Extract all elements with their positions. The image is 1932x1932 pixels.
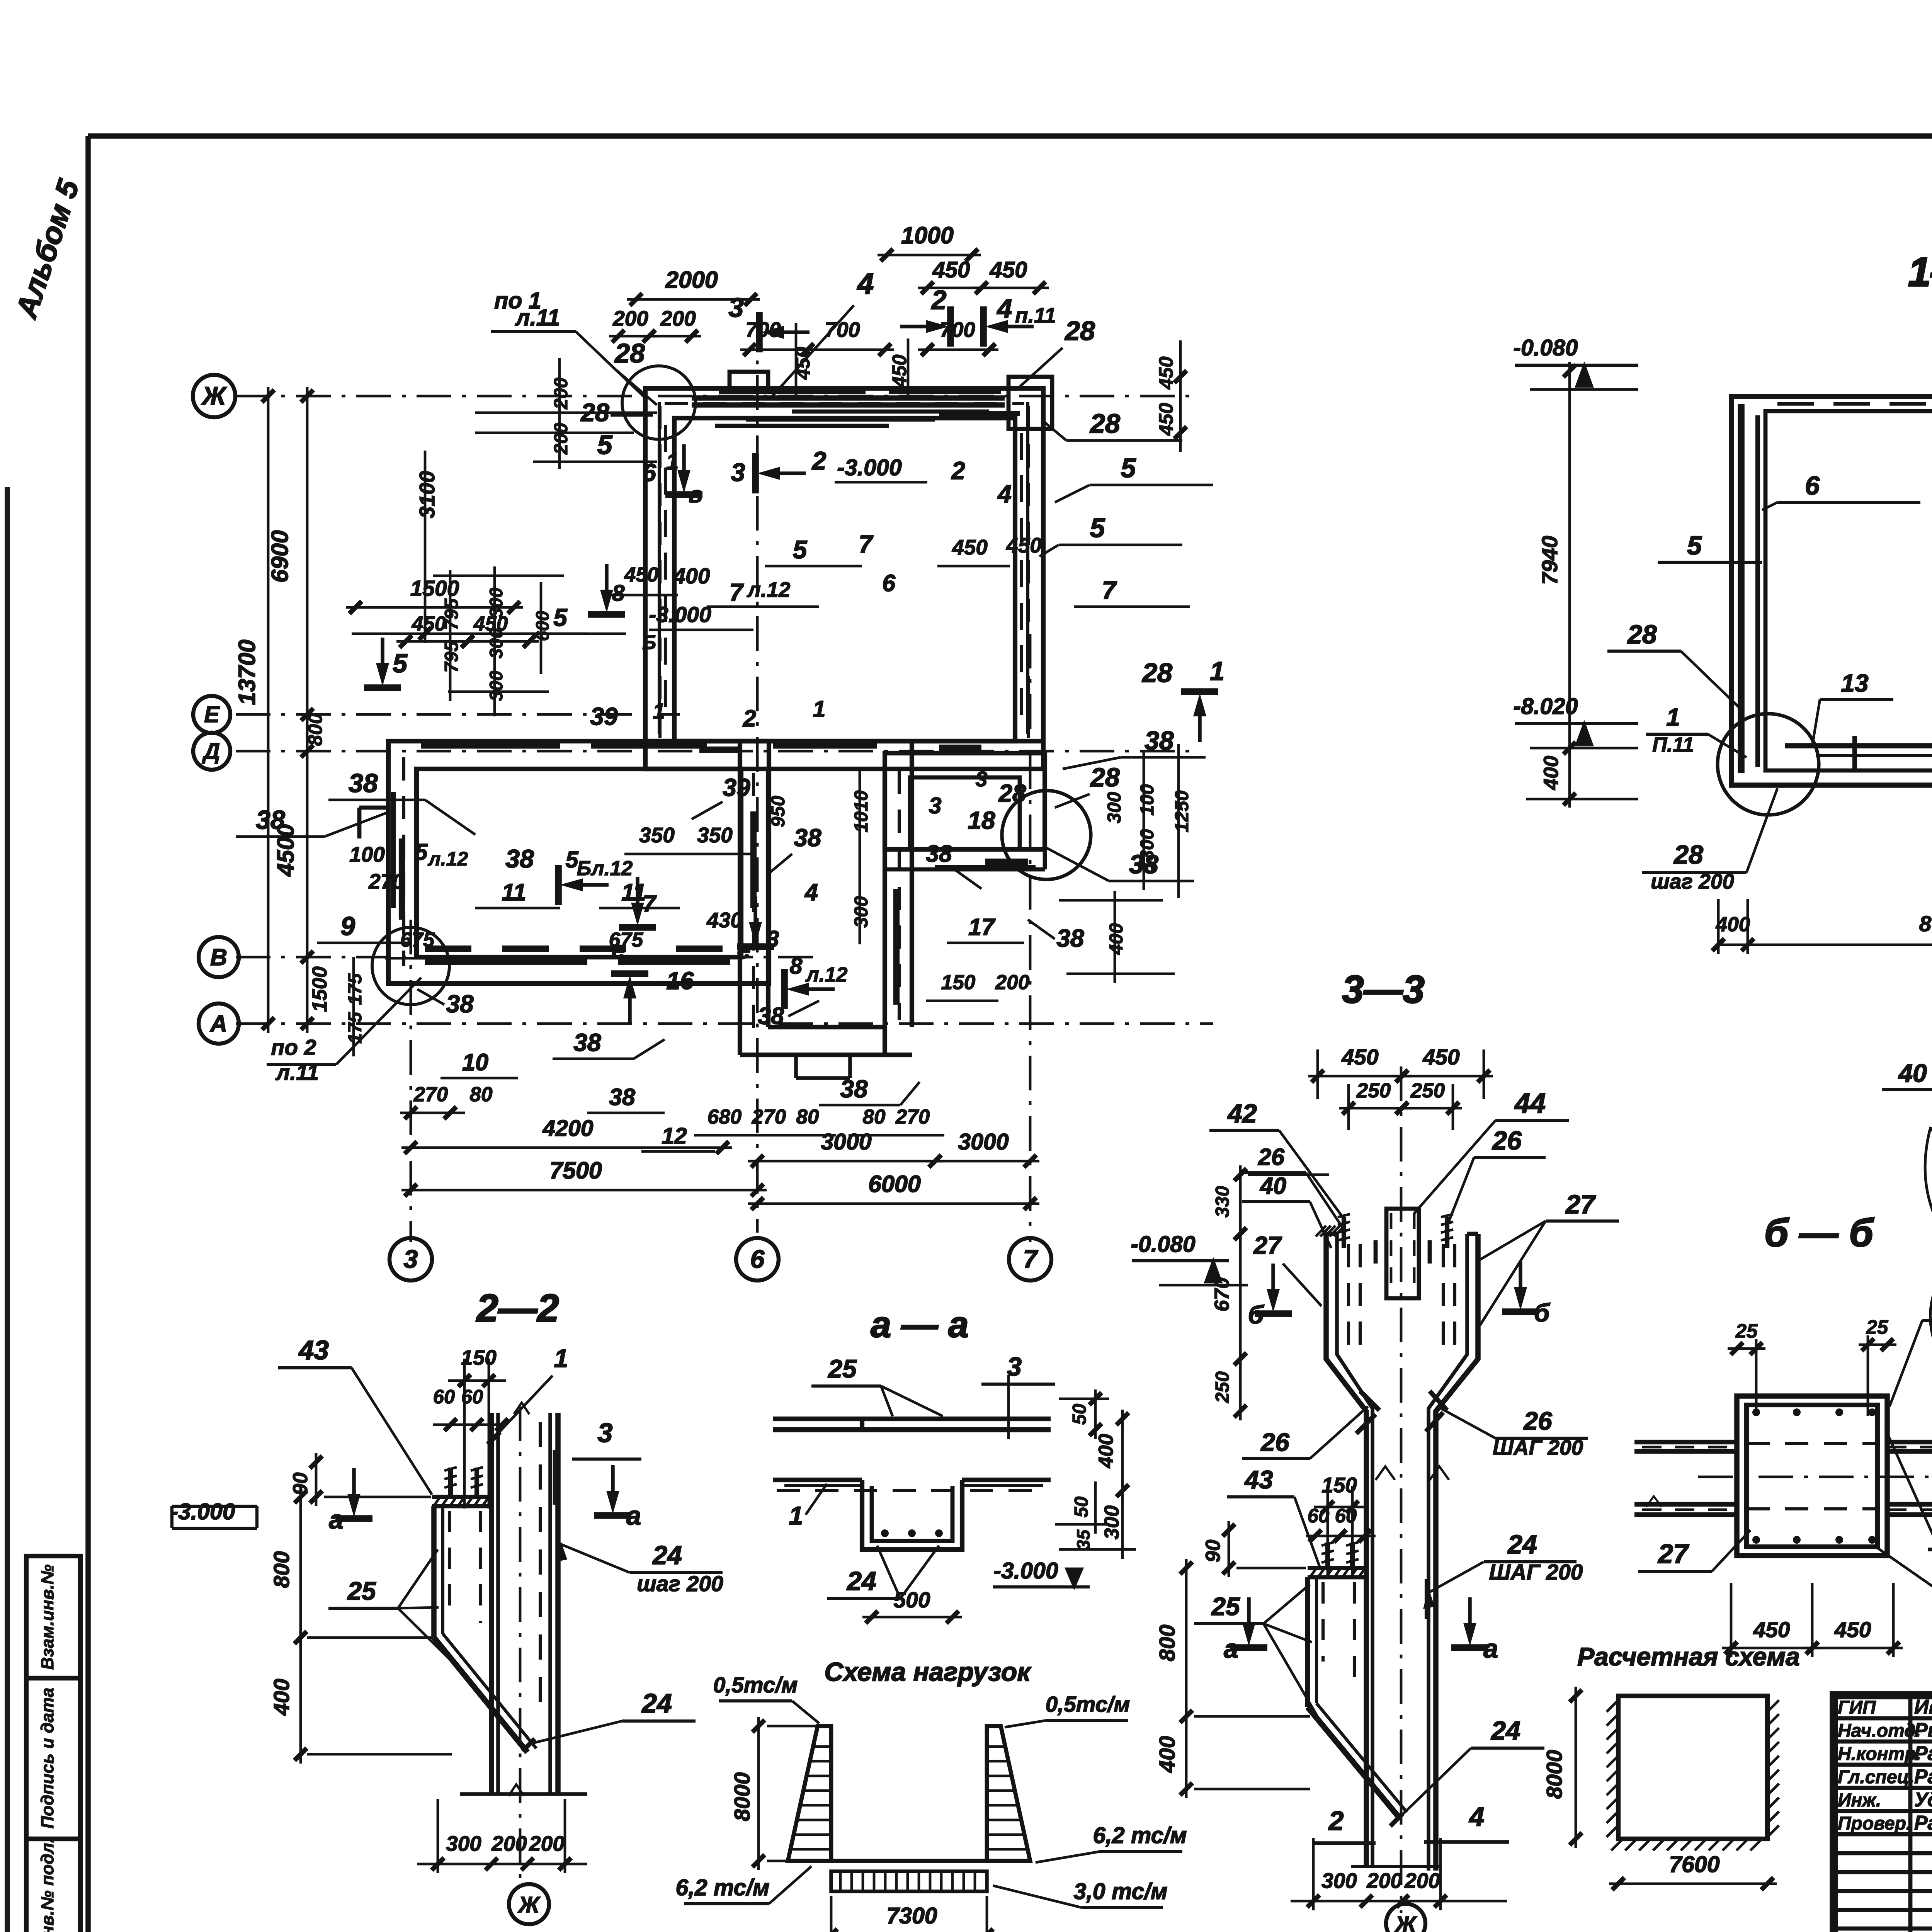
- svg-text:Рыбкина: Рыбкина: [1914, 1719, 1932, 1742]
- svg-text:300: 300: [851, 896, 872, 928]
- svg-text:5: 5: [415, 839, 428, 865]
- svg-text:5: 5: [793, 535, 808, 564]
- svg-text:44: 44: [1514, 1088, 1546, 1119]
- svg-text:50: 50: [1069, 1404, 1090, 1425]
- svg-text:80: 80: [796, 1105, 819, 1128]
- svg-text:Рашевский: Рашевский: [1914, 1812, 1932, 1834]
- svg-text:400: 400: [1540, 756, 1563, 790]
- svg-text:1: 1: [554, 1344, 568, 1372]
- svg-text:9: 9: [340, 912, 355, 941]
- svg-text:5: 5: [597, 430, 613, 460]
- svg-text:90: 90: [1202, 1540, 1225, 1563]
- svg-text:700: 700: [940, 318, 975, 342]
- svg-text:4: 4: [997, 480, 1012, 508]
- svg-text:39: 39: [723, 774, 750, 801]
- svg-text:6900: 6900: [267, 530, 293, 583]
- svg-text:200: 200: [1404, 1869, 1440, 1893]
- svg-text:38: 38: [446, 990, 474, 1018]
- svg-text:7500: 7500: [549, 1157, 602, 1184]
- svg-text:18: 18: [968, 806, 995, 834]
- svg-text:3: 3: [976, 767, 988, 791]
- svg-text:5: 5: [1687, 531, 1702, 560]
- svg-text:2: 2: [811, 446, 827, 475]
- svg-text:43: 43: [1244, 1465, 1273, 1494]
- svg-text:60: 60: [433, 1386, 455, 1408]
- svg-text:6,2 тс/м: 6,2 тс/м: [676, 1875, 770, 1900]
- svg-text:43: 43: [298, 1335, 329, 1365]
- svg-text:38: 38: [573, 1029, 601, 1056]
- svg-text:27: 27: [1253, 1231, 1282, 1259]
- svg-text:0,5тс/м: 0,5тс/м: [1046, 1692, 1130, 1717]
- svg-text:7600: 7600: [1669, 1852, 1719, 1877]
- svg-text:450: 450: [1006, 533, 1042, 557]
- svg-text:1: 1: [1210, 656, 1225, 686]
- svg-text:2: 2: [1328, 1806, 1344, 1836]
- svg-text:Рашевский: Рашевский: [1914, 1765, 1932, 1788]
- svg-text:6: 6: [750, 1245, 765, 1273]
- svg-text:Бл.12: Бл.12: [577, 857, 633, 880]
- svg-text:Иванова: Иванова: [1914, 1696, 1932, 1718]
- svg-text:700: 700: [825, 318, 860, 342]
- svg-text:200: 200: [1366, 1869, 1402, 1893]
- svg-text:-0.080: -0.080: [1513, 335, 1578, 361]
- svg-text:800: 800: [304, 713, 326, 746]
- svg-text:28: 28: [1090, 763, 1120, 792]
- svg-text:500: 500: [893, 1588, 930, 1612]
- svg-text:10: 10: [462, 1049, 488, 1075]
- svg-text:Нач.отд.: Нач.отд.: [1838, 1721, 1921, 1741]
- svg-text:6,2 тс/м: 6,2 тс/м: [1093, 1823, 1187, 1848]
- svg-text:л.11: л.11: [515, 305, 560, 330]
- svg-text:ГИП: ГИП: [1838, 1697, 1876, 1718]
- svg-text:12: 12: [662, 1123, 687, 1149]
- svg-text:А: А: [209, 1010, 227, 1037]
- svg-text:5: 5: [393, 649, 408, 678]
- svg-text:7: 7: [643, 891, 657, 917]
- svg-text:38: 38: [609, 1084, 635, 1110]
- svg-text:Взам.инв.№: Взам.инв.№: [37, 1565, 57, 1670]
- svg-text:200: 200: [491, 1832, 527, 1855]
- svg-text:1000: 1000: [901, 222, 954, 248]
- svg-text:200: 200: [612, 306, 648, 330]
- svg-text:450: 450: [1422, 1045, 1459, 1070]
- svg-text:1: 1: [666, 449, 679, 474]
- svg-text:2: 2: [951, 457, 965, 485]
- svg-text:7: 7: [729, 578, 744, 606]
- svg-text:8000: 8000: [1919, 912, 1932, 936]
- svg-text:26: 26: [1260, 1428, 1290, 1456]
- svg-text:4: 4: [804, 879, 818, 905]
- svg-text:450: 450: [412, 612, 446, 635]
- svg-text:40: 40: [1898, 1059, 1927, 1087]
- svg-text:270: 270: [413, 1083, 448, 1106]
- svg-text:270: 270: [752, 1105, 786, 1128]
- svg-text:200: 200: [529, 1832, 565, 1855]
- svg-text:2: 2: [743, 705, 756, 731]
- svg-text:300: 300: [1104, 792, 1125, 823]
- svg-text:Рашевский: Рашевский: [1914, 1742, 1932, 1765]
- svg-text:8: 8: [790, 953, 803, 979]
- svg-text:a — a: a — a: [871, 1304, 968, 1345]
- svg-text:24: 24: [1507, 1530, 1537, 1559]
- svg-text:Инж.: Инж.: [1838, 1790, 1881, 1811]
- svg-text:8: 8: [612, 580, 625, 606]
- svg-text:3: 3: [598, 1418, 613, 1448]
- svg-text:4: 4: [1469, 1801, 1485, 1832]
- svg-text:1500: 1500: [308, 966, 331, 1012]
- svg-text:5: 5: [553, 604, 568, 631]
- svg-text:6: 6: [1805, 471, 1820, 500]
- svg-text:38: 38: [1145, 726, 1174, 755]
- svg-text:-3.000: -3.000: [837, 455, 901, 480]
- svg-text:Ж: Ж: [1394, 1912, 1418, 1932]
- svg-text:39: 39: [590, 702, 618, 730]
- svg-text:7: 7: [1023, 1245, 1039, 1273]
- svg-text:795: 795: [441, 641, 462, 673]
- svg-text:6000: 6000: [868, 1171, 921, 1197]
- svg-text:800: 800: [1155, 1624, 1180, 1661]
- svg-text:3: 3: [929, 793, 942, 818]
- svg-text:950: 950: [768, 796, 789, 827]
- svg-text:Провер.: Провер.: [1838, 1813, 1911, 1834]
- svg-text:17: 17: [968, 914, 996, 940]
- svg-text:4: 4: [857, 267, 874, 300]
- svg-text:300: 300: [1321, 1869, 1357, 1893]
- svg-text:1: 1: [653, 699, 665, 724]
- svg-text:Ж: Ж: [517, 1892, 541, 1918]
- svg-text:П.11: П.11: [1652, 733, 1694, 756]
- svg-text:-3.000: -3.000: [993, 1558, 1058, 1583]
- svg-text:-0.080: -0.080: [1131, 1231, 1195, 1257]
- svg-text:3: 3: [404, 1245, 418, 1273]
- svg-text:400: 400: [673, 564, 710, 588]
- svg-text:1: 1: [1666, 703, 1680, 731]
- svg-text:2: 2: [931, 285, 947, 315]
- svg-text:1250: 1250: [1172, 790, 1192, 832]
- svg-text:38: 38: [349, 769, 378, 798]
- svg-text:150: 150: [461, 1345, 497, 1369]
- svg-text:-3.000: -3.000: [170, 1499, 235, 1524]
- svg-text:6: 6: [882, 570, 896, 596]
- svg-text:7: 7: [1102, 576, 1117, 604]
- svg-text:80: 80: [863, 1105, 886, 1128]
- svg-text:0,5тс/м: 0,5тс/м: [713, 1673, 798, 1697]
- svg-text:42: 42: [1227, 1099, 1257, 1128]
- svg-text:е: е: [611, 936, 625, 964]
- svg-text:26: 26: [1523, 1406, 1553, 1435]
- svg-text:250: 250: [1356, 1079, 1391, 1102]
- svg-text:28: 28: [1627, 620, 1657, 649]
- svg-text:16: 16: [666, 967, 694, 995]
- svg-text:35: 35: [1073, 1529, 1094, 1550]
- svg-text:450: 450: [1155, 403, 1177, 436]
- svg-text:300: 300: [1100, 1505, 1123, 1539]
- svg-text:по 2: по 2: [271, 1035, 316, 1060]
- svg-text:400: 400: [1155, 1736, 1180, 1773]
- svg-text:26: 26: [1492, 1126, 1522, 1155]
- svg-text:670: 670: [1211, 1277, 1233, 1311]
- svg-text:28: 28: [1673, 840, 1703, 869]
- svg-text:Е: Е: [204, 702, 220, 727]
- svg-text:300: 300: [486, 671, 506, 701]
- svg-text:Подпись и дата: Подпись и дата: [37, 1688, 57, 1829]
- svg-text:38: 38: [1056, 924, 1084, 952]
- svg-text:350: 350: [697, 823, 733, 847]
- svg-text:8000: 8000: [730, 1772, 755, 1821]
- svg-text:4: 4: [997, 293, 1012, 323]
- svg-text:5: 5: [1090, 513, 1105, 543]
- svg-text:450: 450: [1834, 1617, 1871, 1642]
- svg-text:450: 450: [1753, 1617, 1790, 1642]
- svg-text:680: 680: [707, 1105, 742, 1128]
- svg-text:4200: 4200: [542, 1116, 593, 1141]
- svg-text:38: 38: [256, 805, 285, 835]
- svg-text:175: 175: [345, 973, 366, 1005]
- svg-text:330: 330: [1212, 1186, 1233, 1218]
- svg-text:28: 28: [1141, 658, 1172, 688]
- svg-text:28: 28: [998, 779, 1026, 807]
- svg-text:1: 1: [789, 1501, 803, 1530]
- svg-text:400: 400: [1095, 1434, 1117, 1468]
- svg-text:38: 38: [926, 840, 952, 867]
- svg-text:28: 28: [614, 338, 645, 368]
- svg-text:50: 50: [1071, 1497, 1092, 1518]
- svg-text:430: 430: [706, 908, 742, 932]
- svg-text:24: 24: [652, 1541, 682, 1570]
- svg-text:150: 150: [941, 971, 975, 994]
- svg-text:25: 25: [827, 1354, 857, 1383]
- svg-text:27: 27: [1657, 1539, 1689, 1569]
- svg-text:250: 250: [1212, 1371, 1233, 1403]
- svg-text:3000: 3000: [958, 1129, 1009, 1155]
- svg-text:3—3: 3—3: [1342, 968, 1424, 1011]
- svg-text:л.12: л.12: [427, 848, 468, 870]
- svg-text:270: 270: [368, 869, 404, 893]
- svg-text:100: 100: [1137, 784, 1158, 816]
- svg-text:27: 27: [1565, 1190, 1596, 1219]
- svg-text:25: 25: [1866, 1316, 1888, 1338]
- svg-text:25: 25: [1735, 1320, 1758, 1342]
- svg-text:450: 450: [932, 257, 970, 282]
- svg-text:7940: 7940: [1537, 536, 1562, 585]
- svg-text:1010: 1010: [851, 790, 872, 832]
- svg-text:25: 25: [1211, 1592, 1240, 1621]
- svg-text:7300: 7300: [886, 1903, 937, 1929]
- svg-text:шаг 200: шаг 200: [637, 1571, 723, 1596]
- svg-text:Удалова: Удалова: [1914, 1789, 1932, 1811]
- svg-text:400: 400: [269, 1679, 294, 1716]
- svg-text:450: 450: [1341, 1045, 1378, 1070]
- svg-text:Гл.спец.: Гл.спец.: [1838, 1767, 1914, 1787]
- svg-text:Ж: Ж: [201, 381, 227, 410]
- svg-text:24: 24: [846, 1566, 876, 1596]
- svg-text:80: 80: [470, 1083, 493, 1106]
- svg-text:250: 250: [1410, 1079, 1445, 1102]
- svg-text:38: 38: [794, 824, 821, 852]
- svg-text:1500: 1500: [410, 576, 459, 601]
- svg-text:25: 25: [347, 1577, 376, 1605]
- svg-text:200: 200: [995, 971, 1029, 994]
- svg-text:60: 60: [1308, 1505, 1330, 1527]
- svg-text:38: 38: [505, 844, 534, 873]
- svg-text:800: 800: [269, 1551, 294, 1588]
- svg-text:270: 270: [895, 1105, 930, 1128]
- svg-text:3000: 3000: [821, 1129, 871, 1155]
- svg-text:3,0 тс/м: 3,0 тс/м: [1074, 1879, 1168, 1904]
- svg-text:400: 400: [1106, 923, 1127, 955]
- svg-text:450: 450: [1155, 356, 1177, 389]
- svg-text:6: 6: [642, 459, 656, 486]
- svg-text:450: 450: [990, 257, 1027, 282]
- svg-text:2000: 2000: [665, 267, 718, 293]
- svg-text:1300: 1300: [1137, 829, 1158, 871]
- svg-text:Н.контр.: Н.контр.: [1838, 1744, 1921, 1764]
- svg-text:Инв.№ подл.: Инв.№ подл.: [37, 1838, 57, 1932]
- svg-text:л.12: л.12: [805, 963, 848, 986]
- svg-text:ШАГ 200: ШАГ 200: [1489, 1560, 1583, 1585]
- svg-text:1—1: 1—1: [1908, 249, 1932, 295]
- svg-text:350: 350: [639, 823, 675, 847]
- svg-text:Б: Б: [642, 631, 656, 653]
- svg-text:28: 28: [1064, 316, 1095, 346]
- svg-text:3: 3: [731, 458, 745, 486]
- svg-text:Схема нагрузок: Схема нагрузок: [824, 1657, 1032, 1687]
- svg-text:В: В: [210, 944, 227, 970]
- svg-text:2—2: 2—2: [476, 1287, 559, 1330]
- svg-text:100: 100: [349, 842, 385, 866]
- svg-text:5: 5: [1121, 453, 1136, 483]
- svg-text:п.11: п.11: [1015, 303, 1056, 327]
- svg-text:Д: Д: [202, 738, 220, 764]
- svg-text:300: 300: [446, 1832, 481, 1855]
- svg-text:13700: 13700: [234, 639, 260, 705]
- svg-text:40: 40: [1259, 1173, 1286, 1199]
- svg-text:450: 450: [952, 535, 988, 559]
- svg-text:450: 450: [473, 612, 508, 635]
- svg-text:400: 400: [1716, 913, 1750, 936]
- svg-text:л.12: л.12: [747, 578, 791, 602]
- svg-text:1: 1: [813, 696, 826, 722]
- svg-text:450: 450: [624, 563, 658, 586]
- svg-text:7: 7: [859, 530, 874, 558]
- svg-text:200: 200: [660, 306, 696, 330]
- svg-text:б — б: б — б: [1764, 1211, 1874, 1255]
- svg-text:200: 200: [551, 423, 571, 455]
- svg-text:13: 13: [1841, 669, 1868, 697]
- svg-text:3100: 3100: [415, 471, 439, 518]
- svg-text:3: 3: [729, 293, 744, 323]
- svg-text:8000: 8000: [1542, 1750, 1567, 1799]
- svg-text:Расчетная схема: Расчетная схема: [1577, 1642, 1800, 1671]
- svg-text:200: 200: [551, 378, 571, 410]
- svg-text:24: 24: [1490, 1716, 1520, 1745]
- svg-text:-3.000: -3.000: [649, 602, 711, 627]
- svg-text:11: 11: [502, 879, 526, 905]
- svg-text:24: 24: [641, 1688, 672, 1718]
- svg-text:28: 28: [1089, 408, 1120, 439]
- svg-text:38: 38: [840, 1075, 868, 1103]
- svg-text:38: 38: [758, 1003, 784, 1029]
- svg-text:26: 26: [1258, 1144, 1285, 1170]
